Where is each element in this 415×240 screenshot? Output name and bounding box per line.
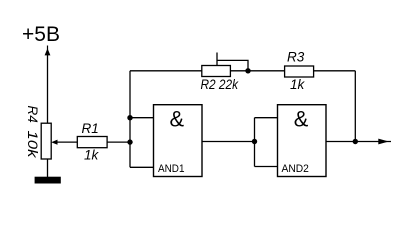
svg-text:R2 22k: R2 22k bbox=[201, 77, 240, 92]
power arrow bbox=[45, 46, 51, 56]
wire R4 bottom to ground bbox=[47, 159, 49, 177]
potentiometer R4 wiper arrow bbox=[51, 140, 57, 145]
svg-text:R4: R4 bbox=[25, 106, 40, 123]
wire node E to R3 bbox=[248, 70, 285, 72]
trimmer R2 body bbox=[202, 66, 231, 77]
node B junction dot bbox=[127, 115, 132, 120]
svg-text:1k: 1k bbox=[290, 77, 306, 92]
wire node C vertical split bbox=[254, 118, 256, 167]
svg-text:1k: 1k bbox=[84, 148, 100, 163]
wire R1 to node A bbox=[107, 141, 130, 143]
node E junction dot bbox=[245, 68, 250, 73]
trimmer R2 wiper stub bbox=[216, 53, 218, 66]
AND gate AND1 box bbox=[154, 105, 203, 177]
label R4 (rotated) bbox=[25, 106, 40, 123]
output arrow bbox=[378, 139, 389, 145]
wire wiper to R1 bbox=[57, 141, 78, 143]
svg-text:AND1: AND1 bbox=[158, 163, 185, 175]
AND2 name label bbox=[282, 163, 309, 175]
label 1k under R3 bbox=[290, 77, 306, 92]
wire node B to AND1 input 1 bbox=[130, 117, 154, 119]
node C junction dot bbox=[252, 139, 257, 144]
svg-text:&: & bbox=[294, 107, 309, 132]
AND2 ampersand symbol bbox=[294, 107, 309, 132]
label R2 22k bbox=[201, 77, 240, 92]
svg-text:R1: R1 bbox=[82, 121, 99, 136]
svg-text:+5В: +5В bbox=[22, 23, 60, 46]
label 10k (rotated) bbox=[25, 131, 40, 160]
svg-text:10k: 10k bbox=[25, 131, 40, 160]
wire feedback vertical bbox=[129, 71, 131, 168]
ground bbox=[35, 177, 61, 184]
wire top rail left segment bbox=[130, 70, 202, 72]
AND gate AND2 box bbox=[278, 105, 327, 177]
potentiometer R4 body bbox=[41, 123, 51, 159]
node A junction dot bbox=[127, 139, 132, 144]
AND1 ampersand symbol bbox=[170, 107, 185, 132]
wire to AND1 input 2 bbox=[130, 166, 154, 168]
svg-text:&: & bbox=[170, 107, 185, 132]
resistor R3 body bbox=[285, 66, 314, 77]
wire +5V to R4 top bbox=[47, 55, 49, 124]
wire R2 right to node E bbox=[230, 70, 248, 72]
node D junction dot bbox=[353, 139, 358, 144]
label R3 bbox=[287, 50, 305, 65]
label R1 bbox=[82, 121, 99, 136]
svg-text:R3: R3 bbox=[287, 50, 305, 65]
wire R2 wiper to node E bbox=[217, 60, 248, 70]
svg-text:AND2: AND2 bbox=[282, 163, 309, 175]
wire node D to output bbox=[355, 141, 391, 143]
AND1 name label bbox=[158, 163, 185, 175]
label 1k under R1 bbox=[84, 148, 100, 163]
wire AND2 output to node D bbox=[326, 141, 355, 143]
resistor R1 body bbox=[77, 137, 107, 148]
power +5V label bbox=[22, 23, 60, 46]
wire R3 right to corner bbox=[314, 70, 356, 72]
wire node D up to top rail bbox=[354, 71, 356, 142]
wire to AND2 input 1 bbox=[255, 117, 278, 119]
wire AND1 output to node C bbox=[202, 141, 255, 143]
wire to AND2 input 2 bbox=[255, 166, 278, 168]
